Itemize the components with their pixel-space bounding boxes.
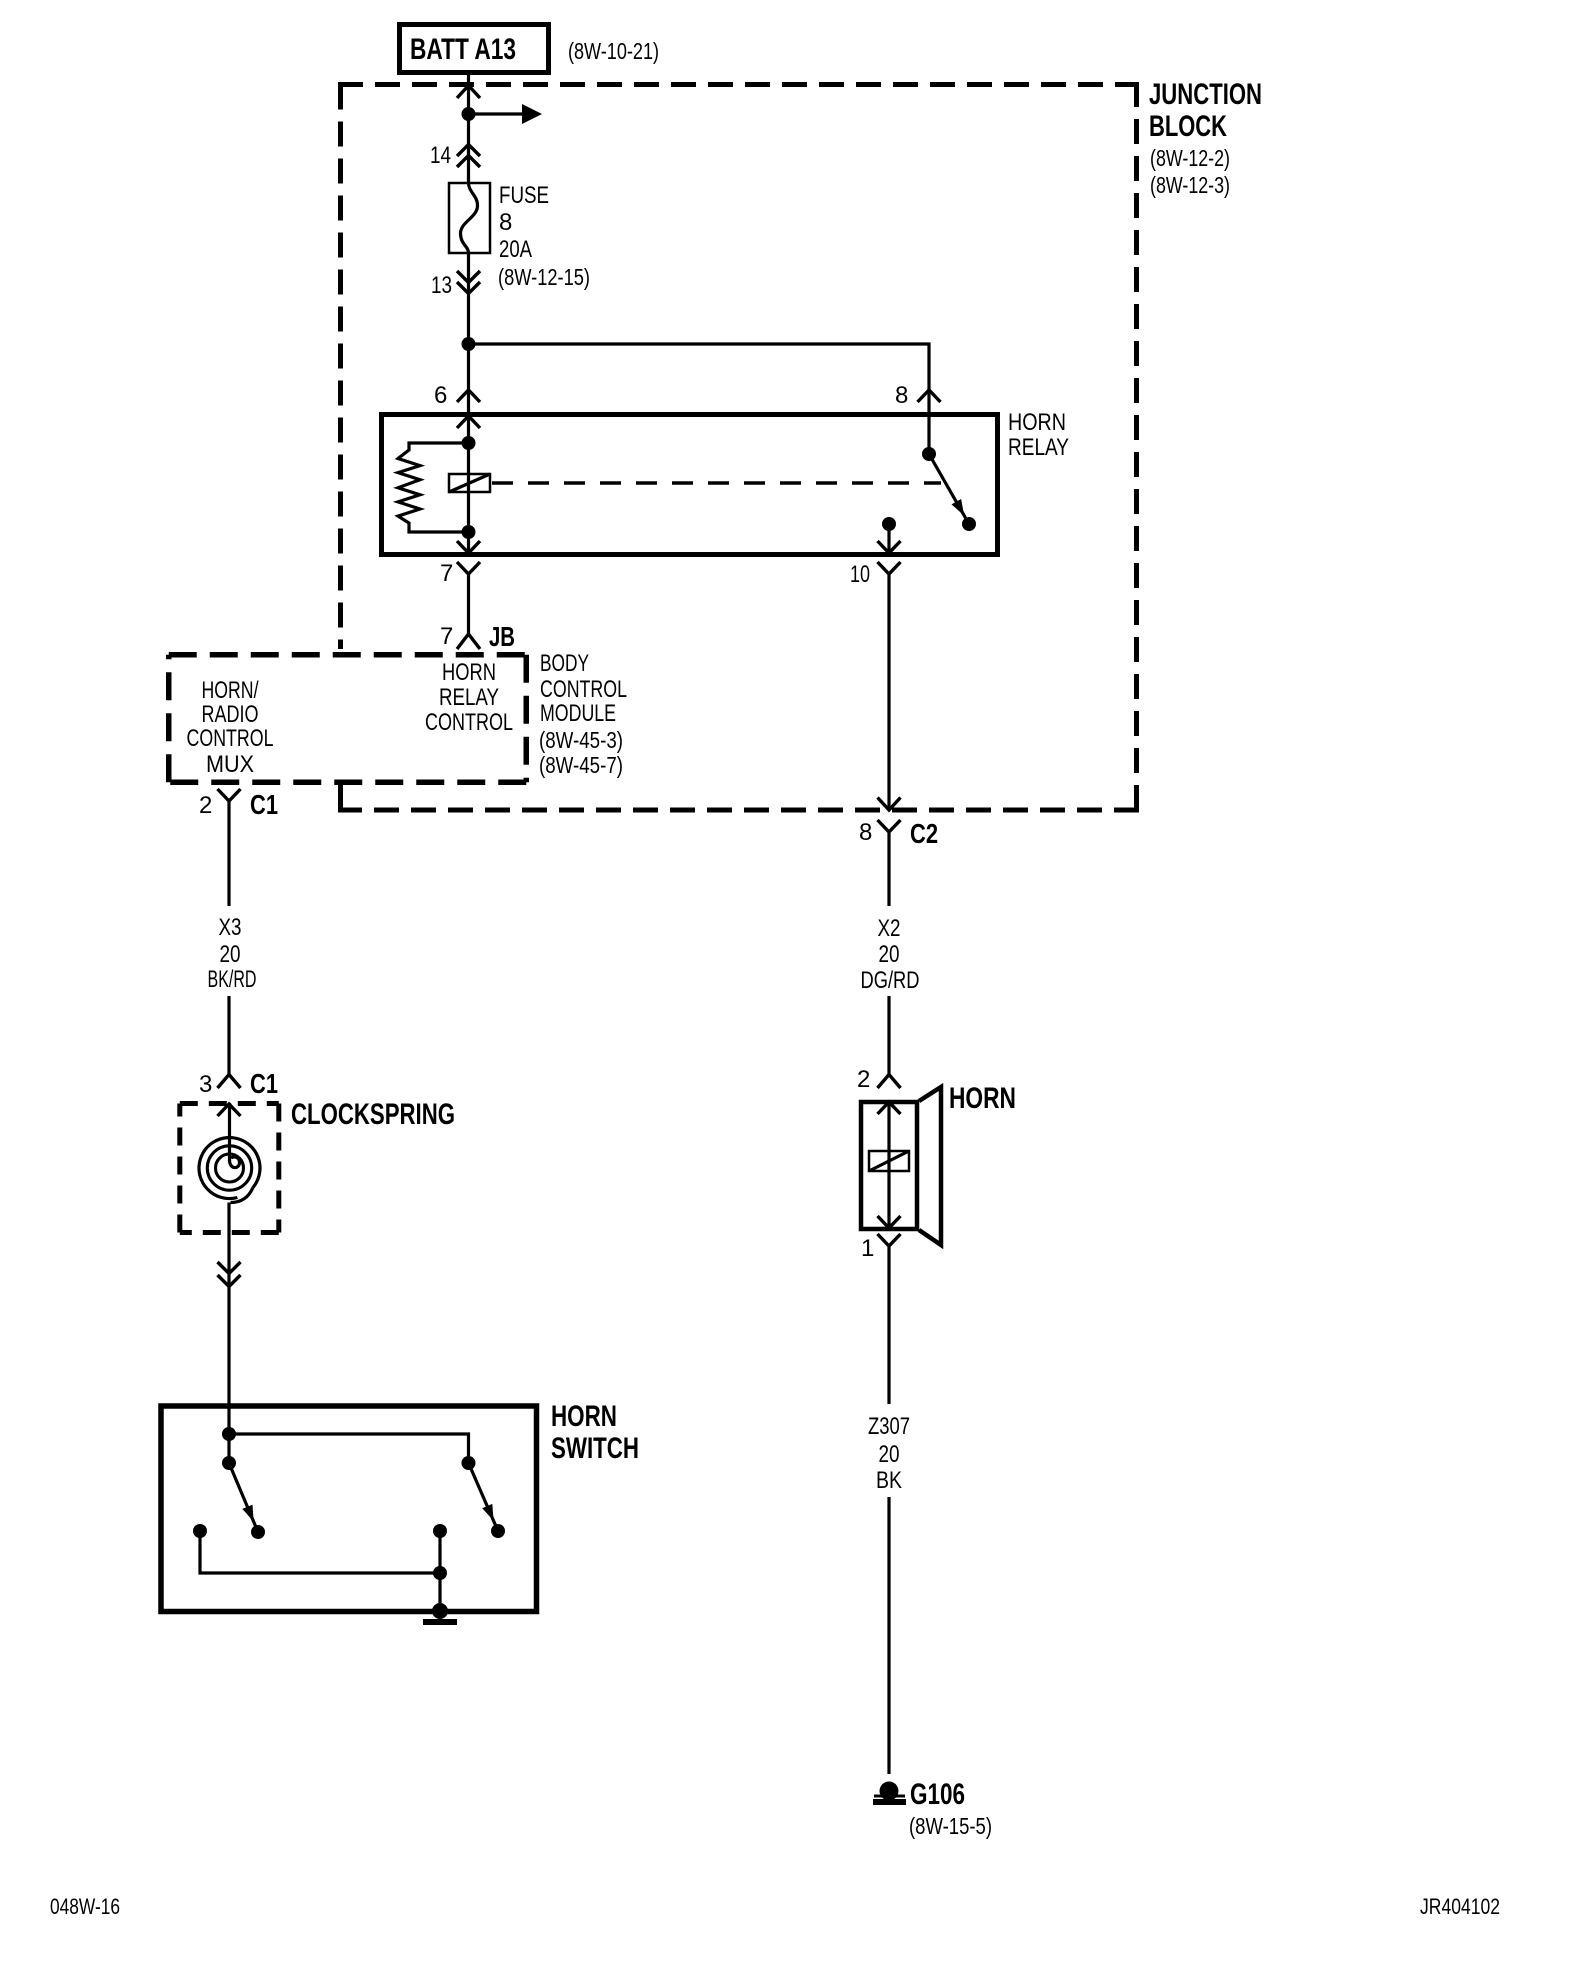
svg-text:HORN: HORN — [1008, 409, 1066, 436]
clockspring coil middle ring — [207, 1146, 251, 1190]
svg-text:20A: 20A — [499, 236, 532, 263]
wire horn to Z307 label — [887, 1246, 890, 1404]
svg-text:2: 2 — [199, 792, 212, 819]
wire splice down into horn relay coil — [467, 344, 470, 557]
horn switch left contact wire — [227, 1434, 230, 1463]
svg-text:(8W-12-3): (8W-12-3) — [1150, 172, 1230, 198]
svg-text:BK: BK — [876, 1467, 902, 1494]
relay output inner chevron — [878, 541, 901, 553]
clockspring coil outer ring — [199, 1138, 260, 1199]
svg-text:3: 3 — [199, 1071, 212, 1098]
wire X2 lower segment — [887, 996, 890, 1074]
svg-text:1: 1 — [861, 1235, 874, 1262]
wire Z307 to ground G106 — [887, 1497, 890, 1774]
svg-text:FUSE: FUSE — [499, 182, 549, 209]
junction block dashed border bottom edge — [338, 808, 1139, 813]
ground G106 symbol — [880, 1782, 899, 1801]
junction block dashed border top edge — [338, 82, 1139, 87]
horn switch bridge wire to right contact — [229, 1434, 469, 1463]
branch arrow to other circuits — [469, 112, 525, 115]
horn switch right output dot — [433, 1524, 447, 1538]
svg-text:JUNCTION: JUNCTION — [1149, 78, 1262, 111]
pin 6 chevron — [457, 390, 480, 402]
wire relay pin 7 to JB connector — [467, 574, 470, 633]
svg-text:JB: JB — [489, 621, 515, 652]
svg-text:20: 20 — [879, 1441, 900, 1468]
svg-text:C2: C2 — [910, 818, 938, 849]
svg-text:(8W-12-2): (8W-12-2) — [1150, 145, 1230, 171]
svg-text:8: 8 — [499, 209, 512, 236]
body control module dashed box — [169, 655, 527, 783]
relay output node dot — [882, 517, 896, 531]
clockspring coil exit tail — [231, 1188, 253, 1203]
svg-text:BATT A13: BATT A13 — [410, 33, 516, 66]
svg-text:HORN/: HORN/ — [202, 677, 259, 704]
svg-text:048W-16: 048W-16 — [50, 1894, 120, 1919]
connector chevron at junction block top edge — [457, 86, 480, 99]
node dot below battery feed — [462, 107, 476, 121]
svg-text:(8W-12-15): (8W-12-15) — [498, 264, 590, 290]
horn switch box — [161, 1406, 537, 1612]
clockspring lower double chevron — [218, 1262, 241, 1287]
svg-text:DG/RD: DG/RD — [861, 967, 920, 994]
horn switch output wire run — [200, 1531, 440, 1573]
horn switch left arm — [229, 1463, 258, 1532]
svg-text:HORN: HORN — [949, 1082, 1016, 1115]
svg-text:(8W-10-21): (8W-10-21) — [568, 38, 659, 64]
svg-text:CONTROL: CONTROL — [425, 709, 513, 736]
svg-text:(8W-15-5): (8W-15-5) — [909, 1813, 992, 1839]
svg-text:8: 8 — [859, 819, 872, 846]
junction block dashed border left edge lower — [338, 785, 343, 810]
clockspring coil inner ring — [216, 1154, 244, 1182]
relay output wire inside box — [887, 524, 890, 557]
relay actuator dashed link — [492, 481, 941, 485]
svg-text:JR404102: JR404102 — [1420, 1894, 1500, 1919]
svg-text:13: 13 — [431, 272, 452, 299]
svg-text:Z307: Z307 — [868, 1413, 910, 1440]
wire X2 upper segment — [887, 832, 890, 906]
horn switch left output dot — [193, 1524, 207, 1538]
svg-text:10: 10 — [850, 561, 870, 588]
clockspring inner chevron — [218, 1104, 241, 1116]
horn speaker flare — [919, 1087, 941, 1245]
connector C2 Y — [878, 820, 901, 832]
svg-text:RADIO: RADIO — [202, 701, 259, 728]
pin 14 double chevron — [457, 145, 480, 168]
relay coil top node dot — [462, 436, 476, 450]
connector JB male chevron — [457, 634, 480, 649]
pin 8 chevron — [918, 390, 941, 402]
fuse 8 20A body — [449, 183, 490, 253]
relay resistor branch — [398, 443, 469, 532]
svg-text:7: 7 — [440, 623, 453, 650]
wire X3 lower segment — [227, 996, 230, 1074]
junction block dashed border left edge upper — [338, 85, 343, 650]
connector C1 male chevron at clockspring — [218, 1075, 241, 1089]
svg-text:MUX: MUX — [206, 751, 254, 778]
wire from node to fuse — [467, 114, 470, 183]
horn inner bottom chevron — [878, 1216, 901, 1228]
horn pin 2 male chevron — [878, 1075, 901, 1089]
svg-text:X3: X3 — [219, 914, 242, 941]
horn switch left contact dot — [222, 1456, 236, 1470]
wire relay pin 10 down to junction block edge — [887, 574, 890, 810]
horn switch right arm — [469, 1463, 499, 1531]
battery feed box BATT A13 — [400, 25, 549, 73]
svg-text:20: 20 — [220, 941, 241, 968]
junction block dashed border right edge — [1134, 85, 1139, 811]
horn inner top chevron — [878, 1102, 901, 1114]
wire from fuse to splice node — [467, 253, 470, 344]
svg-text:HORN: HORN — [442, 659, 496, 686]
clockspring coil center curl — [230, 1157, 240, 1168]
svg-text:6: 6 — [434, 382, 447, 409]
relay coil symbol — [449, 474, 490, 492]
horn switch right contact dot — [462, 1456, 476, 1470]
svg-text:20: 20 — [879, 941, 900, 968]
horn switch output junction dot — [433, 1566, 447, 1580]
clockspring dashed box — [180, 1104, 279, 1233]
connector C1 Y at mux output — [218, 789, 241, 801]
svg-text:(8W-45-7): (8W-45-7) — [539, 752, 623, 778]
horn inner wire — [887, 1102, 890, 1229]
svg-text:HORN: HORN — [551, 1400, 617, 1433]
svg-text:CONTROL: CONTROL — [540, 676, 627, 703]
svg-text:RELAY: RELAY — [439, 684, 499, 711]
horn pin 1 connector Y — [878, 1234, 901, 1246]
svg-text:G106: G106 — [910, 1778, 965, 1811]
horn switch ground dot — [432, 1603, 448, 1619]
horn switch input node dot — [222, 1427, 236, 1441]
wire branch to horn relay contact pin 8 — [469, 344, 930, 454]
horn relay box — [382, 415, 998, 555]
svg-text:8: 8 — [895, 382, 908, 409]
pin 7 connector Y — [457, 562, 480, 574]
wire from clockspring to horn switch — [227, 1203, 230, 1435]
fuse element curve — [460, 183, 477, 253]
svg-text:X2: X2 — [878, 915, 901, 942]
svg-text:CONTROL: CONTROL — [187, 725, 274, 752]
svg-text:7: 7 — [440, 560, 453, 587]
svg-text:CLOCKSPRING: CLOCKSPRING — [291, 1098, 455, 1131]
splice node dot — [462, 337, 476, 351]
svg-text:RELAY: RELAY — [1008, 434, 1069, 461]
horn switch ground wire — [438, 1531, 441, 1611]
pin 10 connector Y — [878, 562, 901, 574]
pin 13 double chevron — [457, 271, 480, 294]
horn body box — [861, 1102, 917, 1229]
horn switch right arm end dot — [491, 1524, 505, 1538]
svg-text:(8W-45-3): (8W-45-3) — [539, 727, 623, 753]
relay coil-side inner chevron — [457, 416, 480, 428]
horn switch ground bar — [423, 1619, 457, 1625]
svg-text:BODY: BODY — [540, 650, 589, 677]
relay contact end dot — [962, 517, 976, 531]
relay coil bottom inner chevron — [457, 541, 480, 553]
wire from BATT A13 into junction block — [467, 75, 470, 114]
horn switch left arm end dot — [251, 1525, 265, 1539]
svg-text:14: 14 — [430, 142, 451, 169]
svg-text:MODULE: MODULE — [540, 700, 616, 727]
horn coil symbol — [869, 1151, 909, 1171]
svg-text:C1: C1 — [250, 789, 278, 820]
clockspring wire into coil — [228, 1103, 231, 1161]
relay contact switch arm — [929, 454, 969, 524]
svg-text:C1: C1 — [250, 1068, 278, 1099]
svg-text:SWITCH: SWITCH — [551, 1432, 639, 1465]
svg-text:BK/RD: BK/RD — [208, 966, 257, 993]
relay coil bottom node dot — [462, 525, 476, 539]
wire X3 upper segment — [227, 801, 230, 906]
svg-text:BLOCK: BLOCK — [1149, 110, 1227, 143]
relay contact common node dot — [922, 447, 936, 461]
svg-text:2: 2 — [857, 1066, 870, 1093]
pin 8 chevron above junction block bottom edge — [878, 798, 901, 811]
